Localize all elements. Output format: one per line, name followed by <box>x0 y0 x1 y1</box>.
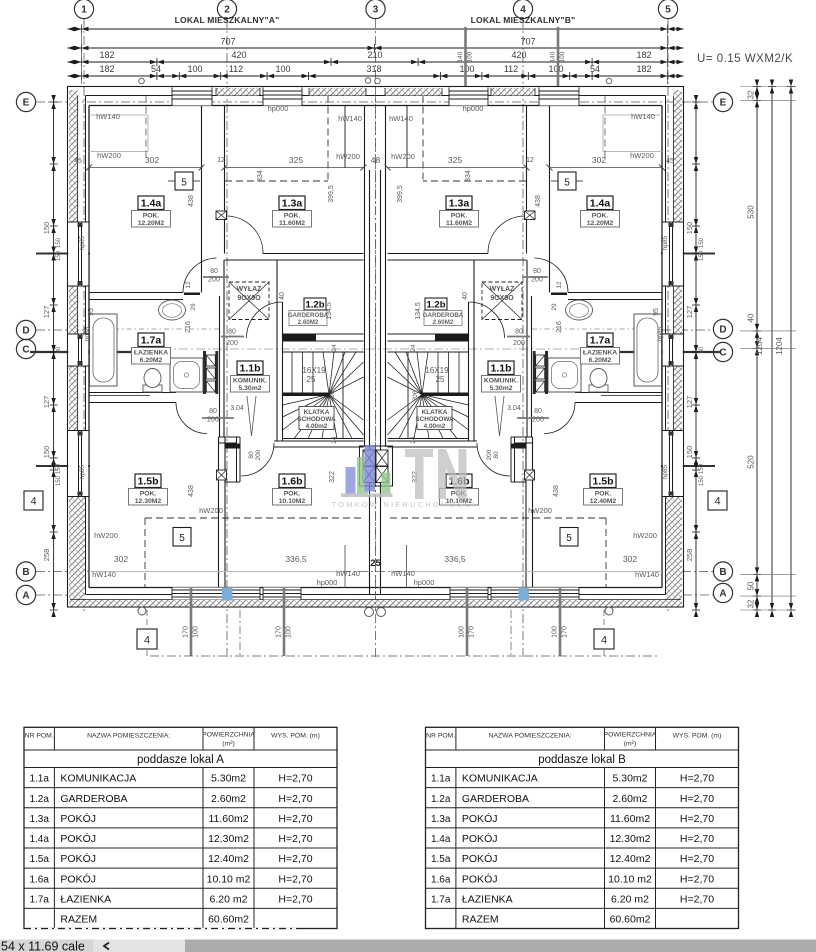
svg-text:80: 80 <box>228 329 236 336</box>
grid circle 4 <box>513 0 532 19</box>
window axis marks left <box>36 253 90 255</box>
svg-text:334: 334 <box>257 170 264 182</box>
svg-text:H=2,70: H=2,70 <box>680 833 714 845</box>
svg-text:200: 200 <box>208 277 220 284</box>
svg-text:hW200: hW200 <box>336 152 360 161</box>
corridor bottom wall / stair base (left) <box>274 440 364 442</box>
svg-text:1.5a: 1.5a <box>431 854 451 865</box>
svg-text:1.7a: 1.7a <box>431 895 451 906</box>
svg-text:H=2,70: H=2,70 <box>278 773 312 785</box>
vent box divider (left) <box>217 470 227 480</box>
bathroom knee dash (left) <box>89 328 219 330</box>
svg-text:420: 420 <box>511 50 526 60</box>
svg-text:420: 420 <box>231 50 246 60</box>
svg-text:4: 4 <box>520 5 526 16</box>
section box 4 right <box>708 491 727 510</box>
svg-text:POKÓJ: POKÓJ <box>462 852 498 865</box>
grid line 5 <box>667 19 669 612</box>
stair direction arrow (right) <box>500 396 505 436</box>
svg-text:1.4a: 1.4a <box>29 834 49 845</box>
svg-text:302: 302 <box>114 554 128 564</box>
stair outline (right) <box>388 351 469 353</box>
knee zone verticals at party wall <box>344 545 346 588</box>
svg-text:POK.: POK. <box>451 213 468 220</box>
label 1.7a <box>587 333 613 347</box>
door 1.3a arc (right) <box>488 216 525 254</box>
garderoba bottom wall (right) <box>435 334 469 341</box>
svg-text:5: 5 <box>181 178 187 189</box>
svg-text:150: 150 <box>42 446 51 459</box>
svg-text:1.1a: 1.1a <box>431 774 451 785</box>
wylaz hatch box (right) <box>482 282 522 320</box>
svg-text:SCHODOWA: SCHODOWA <box>415 416 454 423</box>
svg-text:1.4a: 1.4a <box>590 198 611 210</box>
corridor west wall (right) <box>526 260 528 437</box>
svg-text:12.40m2: 12.40m2 <box>208 853 249 865</box>
svg-text:32: 32 <box>747 599 756 608</box>
svg-text:POK.: POK. <box>595 491 612 498</box>
detail box 5 upper (left) <box>175 172 193 190</box>
svg-text:520: 520 <box>747 455 756 469</box>
svg-text:100: 100 <box>467 51 474 62</box>
svg-text:GARDEROBA: GARDEROBA <box>462 793 529 805</box>
svg-text:1.7a: 1.7a <box>590 335 611 347</box>
svg-text:hp000: hp000 <box>268 104 289 113</box>
bottom wall lines <box>89 587 662 589</box>
svg-text:1.4a: 1.4a <box>141 198 162 210</box>
svg-text:NR POM.: NR POM. <box>25 732 54 739</box>
svg-text:3.04: 3.04 <box>230 405 244 412</box>
svg-text:10.10 m2: 10.10 m2 <box>608 873 652 885</box>
svg-text:H=2,70: H=2,70 <box>680 853 714 865</box>
svg-text:1.1a: 1.1a <box>29 774 49 785</box>
dim fraction bars (left) <box>203 276 229 278</box>
svg-text:200: 200 <box>532 417 544 424</box>
svg-text:NAZWA POMIESZCZENIA:: NAZWA POMIESZCZENIA: <box>489 732 572 739</box>
right total 1204 lines <box>771 87 773 611</box>
svg-text:45: 45 <box>666 158 674 165</box>
svg-text:127: 127 <box>42 306 51 319</box>
right wall inner lines <box>665 96 667 595</box>
svg-text:707: 707 <box>520 37 535 47</box>
table A dashed bottom <box>24 928 300 930</box>
svg-text:100: 100 <box>286 626 293 638</box>
svg-text:11.60m2: 11.60m2 <box>610 813 650 825</box>
svg-text:2: 2 <box>224 5 230 16</box>
svg-text:E: E <box>720 98 727 109</box>
svg-text:11.60m2: 11.60m2 <box>208 813 248 825</box>
svg-text:POWIERZCHNIA: POWIERZCHNIA <box>202 731 255 738</box>
svg-text:1.2a: 1.2a <box>29 794 49 805</box>
divider 1.5b/1.6b (left) <box>218 437 220 588</box>
svg-text:D: D <box>719 325 726 336</box>
right margin horizontal ticks <box>740 86 796 88</box>
svg-text:1.4a: 1.4a <box>431 834 451 845</box>
knee wall dash 1.3a (right) <box>422 96 424 182</box>
label 1.3a <box>279 196 305 210</box>
svg-text:poddasze lokal A: poddasze lokal A <box>137 754 224 766</box>
svg-text:25: 25 <box>307 375 316 384</box>
dim line 707+707 <box>68 47 684 49</box>
toilet (left) <box>143 385 162 392</box>
grid line C thick <box>30 351 162 353</box>
label 1.3a <box>446 196 472 210</box>
right dim chain <box>695 95 697 610</box>
svg-text:H=2,70: H=2,70 <box>278 853 312 865</box>
knee wall lines 1.4a (left) <box>89 114 148 116</box>
svg-text:200: 200 <box>531 277 543 284</box>
svg-text:LOKAL MIESZKALNY"A": LOKAL MIESZKALNY"A" <box>175 15 280 25</box>
svg-text:12.20M2: 12.20M2 <box>587 220 614 227</box>
svg-text:16X19: 16X19 <box>302 366 326 375</box>
svg-text:1.7a: 1.7a <box>141 335 162 347</box>
svg-text:12.30M2: 12.30M2 <box>135 498 162 505</box>
svg-text:hW140: hW140 <box>391 569 415 578</box>
svg-text:1.5b: 1.5b <box>592 476 613 488</box>
svg-text:12.20M2: 12.20M2 <box>138 220 165 227</box>
svg-text:216: 216 <box>185 321 192 333</box>
label 1.6b <box>446 474 472 488</box>
svg-text:100: 100 <box>559 51 566 62</box>
svg-text:40: 40 <box>747 313 756 322</box>
svg-text:9OX9O: 9OX9O <box>237 295 261 302</box>
svg-text:H=2,70: H=2,70 <box>680 813 714 825</box>
svg-text:334: 334 <box>465 170 472 182</box>
svg-text:hp000: hp000 <box>463 104 484 113</box>
svg-text:182: 182 <box>636 64 651 74</box>
svg-text:6.20M2: 6.20M2 <box>589 357 612 364</box>
label 1.2b garderoba right <box>425 298 447 310</box>
svg-text:WYS. POM. (m): WYS. POM. (m) <box>673 732 722 739</box>
svg-text:134,5: 134,5 <box>415 302 422 320</box>
svg-text:80: 80 <box>515 329 523 336</box>
svg-text:POKÓJ: POKÓJ <box>60 812 96 825</box>
knee wall line bottom (right) <box>406 571 662 573</box>
svg-text:1.3a: 1.3a <box>431 814 451 825</box>
knee wall dash 1.3a (left) <box>327 96 329 182</box>
svg-text:438: 438 <box>188 485 195 497</box>
svg-text:200: 200 <box>513 340 525 347</box>
svg-text:80: 80 <box>209 408 217 415</box>
grid circle 2 <box>217 0 236 19</box>
svg-text:(m²): (m²) <box>222 740 234 747</box>
label 1.4a <box>138 196 164 210</box>
door 1.4a arc (left) <box>183 258 217 293</box>
svg-text:KOMUNIK.: KOMUNIK. <box>484 378 518 385</box>
svg-text:H=2,70: H=2,70 <box>278 894 312 906</box>
svg-text:6.20 m2: 6.20 m2 <box>210 894 248 906</box>
svg-text:hp000: hp000 <box>317 578 338 587</box>
svg-text:1.5b: 1.5b <box>137 476 158 488</box>
svg-text:2.60m2: 2.60m2 <box>612 793 647 805</box>
svg-text:6.20M2: 6.20M2 <box>140 357 163 364</box>
stair outline (left) <box>283 351 364 353</box>
row markers right <box>713 92 732 111</box>
svg-text:B: B <box>22 567 29 578</box>
svg-text:80: 80 <box>248 451 255 459</box>
svg-text:RAZEM: RAZEM <box>60 914 97 926</box>
svg-text:H=2,70: H=2,70 <box>278 793 312 805</box>
svg-text:GARDEROBA: GARDEROBA <box>60 793 127 805</box>
svg-text:H=2,70: H=2,70 <box>278 813 312 825</box>
right wall windows <box>663 222 683 286</box>
svg-text:54 x 11.69 cale: 54 x 11.69 cale <box>1 940 85 952</box>
svg-text:206: 206 <box>412 390 419 401</box>
svg-text:170: 170 <box>469 626 476 638</box>
svg-text:206: 206 <box>329 390 336 401</box>
svg-text:hW200: hW200 <box>199 506 223 515</box>
grid line D <box>36 329 89 331</box>
left dim chain <box>53 95 55 610</box>
bathtub (right) <box>634 314 662 386</box>
svg-text:C: C <box>22 345 29 356</box>
svg-text:150: 150 <box>685 222 694 235</box>
svg-text:216: 216 <box>556 321 563 333</box>
svg-text:H=2,70: H=2,70 <box>278 873 312 885</box>
svg-text:100: 100 <box>548 64 563 74</box>
status bar <box>0 940 816 952</box>
svg-text:100: 100 <box>187 64 202 74</box>
svg-text:hW140: hW140 <box>635 570 659 579</box>
svg-text:200: 200 <box>486 449 493 460</box>
corridor top wall (right) <box>388 253 489 255</box>
window axis marks right <box>661 253 715 255</box>
svg-text:12: 12 <box>526 157 534 164</box>
svg-text:hW140: hW140 <box>389 114 413 123</box>
grid line 2 <box>226 19 228 658</box>
svg-text:H=2,70: H=2,70 <box>680 894 714 906</box>
svg-text:1.3a: 1.3a <box>449 198 470 210</box>
stair upper treads (right) <box>458 352 460 393</box>
stair winders (left) <box>323 352 329 395</box>
svg-text:NAZWA POMIESZCZENIA:: NAZWA POMIESZCZENIA: <box>87 732 170 739</box>
svg-text:E: E <box>23 98 30 109</box>
right overall chain 32/530/40/520/50/32 <box>756 87 758 611</box>
svg-text:54: 54 <box>151 64 161 74</box>
svg-text:hW140: hW140 <box>631 112 655 121</box>
door 1.6b arc (left) <box>241 443 274 476</box>
svg-text:hW200: hW200 <box>94 531 118 540</box>
svg-text:5.30m2: 5.30m2 <box>211 773 246 785</box>
svg-text:poddasze lokal B: poddasze lokal B <box>538 754 626 766</box>
svg-text:150: 150 <box>56 250 62 261</box>
sink (right) <box>566 300 593 320</box>
label klatka schodowa left <box>299 407 334 430</box>
bottom dash lines <box>239 610 241 658</box>
garderoba door arc (left) <box>247 302 283 338</box>
knee wall line bottom (left) <box>89 571 345 573</box>
wall 1.4a/1.3a divider (right) <box>549 106 551 293</box>
grid circle 5 <box>658 0 677 19</box>
svg-text:hp85: hp85 <box>84 326 91 341</box>
svg-text:302: 302 <box>145 155 159 165</box>
svg-text:hW140: hW140 <box>336 569 360 578</box>
svg-text:hp000: hp000 <box>414 578 435 587</box>
stair direction arrow (left) <box>247 396 252 436</box>
svg-text:127: 127 <box>685 306 694 319</box>
label 1.1b <box>237 361 263 375</box>
svg-text:170: 170 <box>562 626 569 638</box>
svg-text:TOMKÓW NIERUCHOMOŚCI: TOMKÓW NIERUCHOMOŚCI <box>331 500 476 509</box>
svg-text:1.3a: 1.3a <box>282 198 303 210</box>
svg-text:POKÓJ: POKÓJ <box>60 852 96 865</box>
stair left wall (right) <box>473 260 475 441</box>
svg-text:80: 80 <box>210 268 218 275</box>
svg-text:U= 0.15 WXM2/K: U= 0.15 WXM2/K <box>697 53 793 65</box>
svg-text:32: 32 <box>747 90 756 99</box>
svg-text:hp85: hp85 <box>657 326 664 341</box>
svg-text:322: 322 <box>329 471 336 483</box>
wall 1.4a/1.3a divider (left) <box>201 106 203 293</box>
label 1.1b <box>488 361 514 375</box>
svg-text:D: D <box>22 326 29 337</box>
door 1.5b arc (right) <box>544 403 575 434</box>
svg-text:POKÓJ: POKÓJ <box>60 832 96 845</box>
top window marker bars <box>464 27 467 87</box>
room dim line upper (right) <box>550 167 663 169</box>
svg-text:LOKAL MIESZKALNY"B": LOKAL MIESZKALNY"B" <box>471 15 576 25</box>
svg-text:POKÓJ: POKÓJ <box>462 872 498 885</box>
window highlight blue B <box>519 588 530 601</box>
svg-text:150: 150 <box>42 222 51 235</box>
svg-text:80: 80 <box>699 346 705 353</box>
svg-text:H=2,70: H=2,70 <box>680 793 714 805</box>
svg-text:hW200: hW200 <box>630 151 654 160</box>
shower (left) <box>170 358 203 392</box>
svg-text:POKÓJ: POKÓJ <box>462 832 498 845</box>
sink (left) <box>159 300 186 320</box>
vent box in divider (left) <box>216 211 227 220</box>
svg-text:5: 5 <box>665 5 671 16</box>
corridor top wall (left) <box>263 253 364 255</box>
grid circle 1 <box>74 0 93 19</box>
svg-text:25: 25 <box>370 558 381 569</box>
svg-text:95: 95 <box>88 308 95 316</box>
svg-text:ŁAZIENKA: ŁAZIENKA <box>462 894 513 906</box>
svg-text:1.6a: 1.6a <box>431 874 451 885</box>
svg-text:1.1b: 1.1b <box>239 363 260 375</box>
svg-text:24: 24 <box>410 344 417 352</box>
svg-text:150: 150 <box>56 237 62 248</box>
detail box 5 lower (right) <box>560 528 578 547</box>
svg-text:3: 3 <box>373 5 379 16</box>
garderoba door arc (right) <box>469 302 505 338</box>
svg-text:POK.: POK. <box>143 213 160 220</box>
svg-text:4: 4 <box>714 496 720 508</box>
svg-text:182: 182 <box>99 50 114 60</box>
grid line 1 <box>83 19 85 612</box>
svg-text:ŁAZIENKA: ŁAZIENKA <box>134 350 168 357</box>
svg-text:WYŁAZ: WYŁAZ <box>490 286 516 293</box>
svg-text:RAZEM: RAZEM <box>462 914 499 926</box>
svg-text:100: 100 <box>193 626 200 638</box>
bathroom top wall (right) <box>568 292 662 294</box>
svg-text:hW200: hW200 <box>633 531 657 540</box>
svg-text:48: 48 <box>371 155 381 165</box>
room dim line upper (left) <box>89 167 202 169</box>
svg-text:100: 100 <box>275 64 290 74</box>
svg-text:60.60m2: 60.60m2 <box>208 914 249 926</box>
svg-text:POK.: POK. <box>140 491 157 498</box>
svg-text:WYŁAZ: WYŁAZ <box>237 286 263 293</box>
party wall vent boxes <box>363 450 375 466</box>
svg-text:200: 200 <box>207 417 219 424</box>
svg-text:hp85: hp85 <box>79 235 86 250</box>
vent box in divider (right) <box>525 211 536 220</box>
vent box divider (right) <box>525 470 535 480</box>
svg-text:318: 318 <box>366 64 381 74</box>
svg-text:9OX9O: 9OX9O <box>490 295 514 302</box>
svg-text:16X19: 16X19 <box>425 366 449 375</box>
svg-text:hW200: hW200 <box>391 152 415 161</box>
svg-text:1.2b: 1.2b <box>305 300 324 311</box>
bottom wall windows <box>172 588 260 600</box>
door 1.5b arc (left) <box>176 403 207 434</box>
svg-text:12.30m2: 12.30m2 <box>208 833 249 845</box>
svg-text:POWIERZCHNIA: POWIERZCHNIA <box>604 731 657 738</box>
svg-text:29: 29 <box>551 303 558 311</box>
shower (right) <box>548 358 581 392</box>
svg-text:336,5: 336,5 <box>444 554 466 564</box>
bathroom top wall (left) <box>89 292 183 294</box>
grid line 3 <box>375 19 377 658</box>
bottom section boxes 4 <box>137 629 157 649</box>
svg-text:40: 40 <box>462 292 469 300</box>
svg-text:GARDEROBA: GARDEROBA <box>288 312 329 319</box>
svg-text:A: A <box>22 591 29 602</box>
svg-text:4.00m2: 4.00m2 <box>306 423 328 430</box>
knee wall dash bottom rooms (left) <box>145 517 364 519</box>
svg-text:5.30m2: 5.30m2 <box>238 385 261 392</box>
left wall windows <box>68 222 88 286</box>
svg-text:210: 210 <box>367 50 382 60</box>
svg-text:336,5: 336,5 <box>285 554 307 564</box>
svg-text:438: 438 <box>188 195 195 207</box>
dim fraction bars (right) <box>522 276 548 278</box>
svg-text:5: 5 <box>564 178 570 189</box>
svg-text:3.04: 3.04 <box>507 405 521 412</box>
left wall inner lines <box>85 96 87 595</box>
table lokal A frame <box>24 727 337 928</box>
party wall <box>364 106 366 448</box>
section box 4 left <box>24 491 43 510</box>
svg-text:325: 325 <box>289 155 303 165</box>
stair upper treads (left) <box>291 352 293 393</box>
svg-text:200: 200 <box>226 340 238 347</box>
svg-text:1.7a: 1.7a <box>29 895 49 906</box>
grid line B <box>36 571 713 573</box>
svg-text:4.00m2: 4.00m2 <box>424 423 446 430</box>
svg-text:438: 438 <box>553 485 560 497</box>
svg-text:hp85: hp85 <box>662 464 669 479</box>
svg-text:4: 4 <box>144 635 150 647</box>
svg-text:(m²): (m²) <box>624 740 636 747</box>
dim line 182/420/210/420/182 <box>68 61 684 63</box>
wylaz hatch box (left) <box>229 282 269 320</box>
svg-text:A: A <box>719 589 726 600</box>
svg-text:H=2,70: H=2,70 <box>278 833 312 845</box>
dash through 4-boxes <box>146 610 148 628</box>
grid circle 3 <box>366 0 385 19</box>
svg-text:54: 54 <box>590 64 600 74</box>
svg-text:100: 100 <box>459 64 474 74</box>
top wall windows <box>172 88 212 106</box>
svg-text:150: 150 <box>699 237 705 248</box>
top wall lines <box>86 95 666 97</box>
bathroom knee dash (right) <box>532 328 662 330</box>
garderoba bottom wall (left) <box>283 334 317 341</box>
svg-text:GARDEROBA: GARDEROBA <box>423 312 464 319</box>
